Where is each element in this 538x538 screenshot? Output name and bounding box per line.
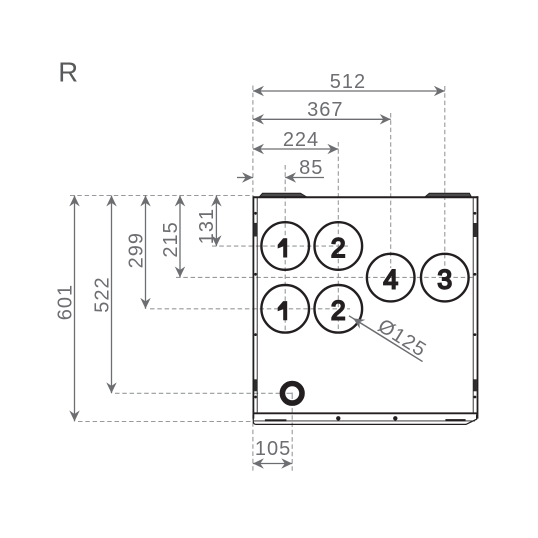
port circle 2 bottom: [315, 285, 363, 333]
cabinet top edge: [253, 196, 479, 198]
extension circle4 vertical: [390, 113, 392, 268]
extension circle3 vertical: [444, 86, 446, 268]
base plinth outline: [253, 415, 476, 425]
leader arrowhead: [353, 318, 422, 361]
svg-text:522: 522: [91, 276, 113, 312]
left edge screw dots: [254, 212, 257, 398]
drain grommet: [280, 381, 305, 406]
svg-text:85: 85: [299, 157, 323, 179]
port circle 2 top: [315, 222, 363, 270]
dimension 105: [253, 463, 292, 465]
extension drain horizontal: [115, 392, 291, 394]
right edge hinge bar upper: [473, 223, 477, 237]
port circle 3: [421, 254, 469, 302]
leader line dia 125: [349, 316, 423, 362]
left edge hinge bar upper: [254, 223, 258, 237]
base inner line: [254, 420, 475, 422]
extension row2 horizontal: [150, 308, 350, 310]
dimension 367: [253, 118, 391, 120]
extension box-top horizontal: [70, 195, 253, 197]
svg-text:131: 131: [196, 208, 218, 244]
dashed extension lines: [70, 86, 473, 472]
svg-text:601: 601: [55, 284, 77, 320]
right edge screw dots: [474, 212, 477, 398]
base foot dot right: [393, 416, 397, 420]
cabinet right edge: [477, 196, 479, 418]
port circle 4: [367, 254, 415, 302]
dimension 299: [145, 196, 147, 309]
base bar left: [265, 419, 287, 421]
extension box-bottom horizontal: [78, 421, 253, 423]
port circle 1 top: [261, 222, 309, 270]
right edge hinge bar lower: [473, 379, 477, 391]
dimension 522: [111, 196, 113, 394]
dimension 85: [237, 177, 324, 179]
extension circle2 vertical: [337, 142, 339, 333]
svg-text:3: 3: [437, 264, 452, 294]
svg-text:R: R: [58, 56, 78, 87]
base bar right: [445, 419, 465, 421]
svg-text:224: 224: [283, 129, 319, 151]
extension circle1 vertical: [284, 165, 286, 333]
cabinet left inner line: [256, 198, 258, 413]
svg-text:367: 367: [307, 99, 343, 121]
svg-text:299: 299: [125, 232, 147, 268]
dimension 131: [215, 196, 217, 247]
base foot dot left: [336, 416, 340, 420]
cabinet bottom edge: [253, 412, 477, 414]
cabinet left edge: [252, 196, 254, 418]
left edge hinge bar lower: [254, 379, 258, 391]
dimension 512: [253, 90, 445, 92]
cabinet outline: [253, 196, 479, 424]
svg-text:215: 215: [160, 221, 182, 257]
extension drain vertical: [291, 386, 293, 472]
svg-text:2: 2: [331, 296, 346, 326]
drain centerline stubs: [287, 393, 293, 400]
dimension 224: [253, 148, 338, 150]
dimension 601: [74, 196, 76, 422]
svg-text:4: 4: [383, 264, 398, 294]
svg-text:2: 2: [331, 233, 346, 263]
port circle 1 bottom: [261, 285, 309, 333]
cabinet right inner line: [472, 198, 474, 413]
svg-text:105: 105: [255, 438, 291, 460]
top duct stub left: [260, 193, 306, 196]
dimension 215: [179, 196, 181, 278]
extension row-4-3 horizontal: [176, 276, 473, 278]
top duct stub right: [425, 193, 471, 196]
extension left-edge vertical: [252, 86, 254, 197]
svg-text:512: 512: [330, 71, 366, 93]
extension row1 horizontal: [212, 245, 348, 247]
extension bottom-left vertical: [252, 415, 254, 472]
